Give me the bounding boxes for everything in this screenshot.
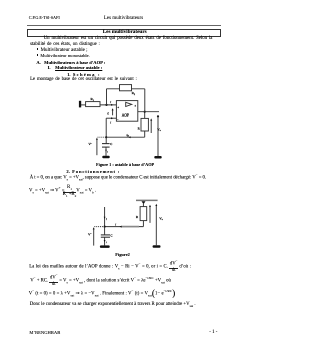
- svg-text:Vs: Vs: [159, 216, 162, 221]
- top rail: [136, 199, 158, 201]
- svg-text:s: s: [135, 105, 136, 108]
- svg-text:R: R: [138, 127, 141, 131]
- wire below C (fig2): [104, 237, 106, 245]
- arrow below C (fig2): [104, 240, 106, 242]
- svg-text:-: -: [117, 117, 118, 121]
- arrow below C: [105, 150, 107, 152]
- bottom wire (fig2): [105, 226, 144, 228]
- V- arrow line (fig2): [93, 229, 95, 246]
- caption figure 1: [96, 163, 154, 167]
- line mailles: [29, 264, 191, 270]
- epsilon arrow: [112, 110, 114, 115]
- svg-text:i: i: [107, 151, 108, 154]
- title text: [103, 30, 147, 35]
- bottom wire C node to R: [106, 136, 145, 138]
- resistor R: [141, 118, 148, 131]
- feedback top wire: [107, 88, 145, 90]
- current arrow i+: [111, 104, 113, 106]
- wire to R: [142, 204, 144, 207]
- heading A: [36, 61, 105, 66]
- wire below C: [105, 147, 107, 156]
- capacitor stem (fig2): [104, 227, 106, 235]
- heading 2: [66, 170, 120, 175]
- svg-text:R2: R2: [132, 91, 136, 96]
- Vs arrow line (fig2): [155, 206, 157, 246]
- current arrow i-: [111, 117, 113, 119]
- equation Vb: [29, 188, 96, 194]
- node A junction: [105, 104, 107, 106]
- resistor R2: [120, 85, 132, 91]
- footer right: [209, 331, 217, 336]
- wire output junction to R top: [144, 112, 146, 119]
- resistor R (fig2): [140, 207, 147, 221]
- svg-text:V−: V−: [88, 233, 93, 237]
- Vs measure line: [157, 116, 159, 156]
- down arrow on left wire: [104, 217, 106, 219]
- footer left: [29, 331, 60, 336]
- header left: [29, 16, 60, 20]
- node C junction: [105, 136, 107, 138]
- ground bar below C (fig2): [100, 245, 110, 248]
- wire node A up: [106, 89, 108, 105]
- op-amp box U1: [116, 101, 137, 122]
- line lambda: [29, 291, 176, 297]
- paragraph t=0: [30, 175, 206, 181]
- arrow beside R (fig2): [149, 207, 151, 223]
- header rule: [27, 24, 221, 27]
- line conclusion: [30, 303, 196, 308]
- svg-text:i: i: [106, 241, 107, 244]
- paragraph line 2: [30, 43, 100, 48]
- header center: [104, 17, 143, 22]
- wire R1 to AOP + input: [100, 104, 116, 106]
- arrow beside R: [150, 120, 152, 133]
- left vertical wire (fig2): [104, 207, 106, 227]
- wire - input: [106, 117, 116, 119]
- ground bar right (fig2): [153, 245, 161, 248]
- wire below R (fig2): [142, 221, 144, 227]
- capacitor C plates (fig2): [101, 234, 110, 236]
- svg-text:C: C: [111, 234, 113, 238]
- title box: [27, 29, 222, 37]
- paragraph line 1: [44, 37, 213, 42]
- heading I: [48, 66, 103, 71]
- thick gray segment: [122, 226, 140, 228]
- dashed ref line (fig2): [94, 226, 103, 228]
- resistor R1: [86, 102, 100, 107]
- current arrow iR: [128, 136, 130, 138]
- line solution: [30, 278, 171, 284]
- svg-text:ε: ε: [107, 111, 109, 115]
- feedback right wire down: [144, 89, 146, 112]
- dashed ref line: [98, 136, 105, 138]
- svg-text:i: i: [115, 223, 116, 227]
- svg-text:AOP: AOP: [122, 114, 129, 118]
- ground terminal left: [79, 101, 81, 108]
- svg-text:i: i: [110, 100, 111, 104]
- svg-text:R: R: [136, 215, 139, 219]
- V- arrow line: [96, 139, 98, 155]
- capacitor C plates: [102, 143, 110, 145]
- wire R bottom: [144, 131, 146, 137]
- output junction: [144, 111, 146, 113]
- intro line: [30, 78, 137, 83]
- heading 1: [67, 73, 101, 78]
- svg-text:+: +: [117, 106, 119, 110]
- bullet 1: [37, 48, 88, 53]
- bullet 2: [37, 54, 90, 59]
- op-amp triangle symbol: [126, 102, 132, 106]
- current arrow i (fig2): [119, 226, 121, 228]
- junction triangle: [142, 201, 146, 204]
- FIGURES SVG: [0, 0, 248, 351]
- svg-text:i: i: [106, 218, 107, 221]
- output wire: [138, 111, 159, 113]
- wire terminal to R1: [81, 104, 86, 106]
- ground bar right: [154, 156, 161, 159]
- Vs node dot: [157, 115, 159, 117]
- svg-text:V−: V−: [88, 142, 93, 146]
- svg-text:i: i: [110, 121, 111, 125]
- node dot (fig2): [104, 226, 106, 228]
- wire - input down: [105, 118, 107, 143]
- caption figure 2: [115, 253, 130, 257]
- ground bar below C: [102, 156, 109, 158]
- svg-text:C: C: [110, 142, 112, 146]
